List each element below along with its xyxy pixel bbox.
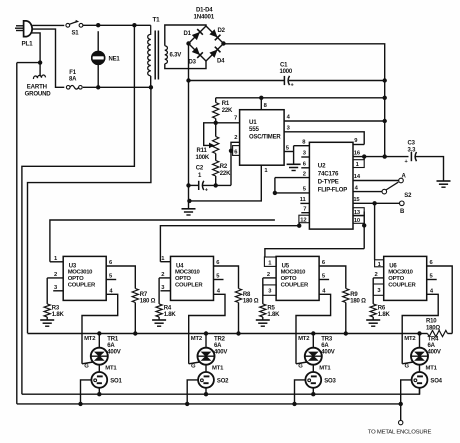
svg-text:6A: 6A — [428, 343, 436, 349]
node NE1 top — [96, 23, 100, 27]
svg-text:6A: 6A — [321, 343, 329, 349]
socket SO3 — [305, 372, 336, 388]
resistor R4 1.8K — [156, 304, 176, 320]
diode D1 — [184, 29, 203, 40]
svg-text:6A: 6A — [214, 343, 222, 349]
wire plug second conductor — [32, 29, 64, 87]
bridge rectifier frame — [189, 26, 224, 61]
opto-coupler U3 MOC3010 box — [63, 256, 106, 300]
svg-text:T1: T1 — [153, 17, 161, 24]
op-amp U1 555 box — [240, 110, 285, 166]
svg-text:2: 2 — [161, 272, 164, 278]
svg-text:180 Ω: 180 Ω — [140, 299, 156, 305]
wire C1 line left — [189, 80, 285, 82]
svg-text:15: 15 — [353, 197, 360, 203]
U2 pin 8 wire to ground — [294, 140, 310, 165]
svg-text:R11: R11 — [197, 148, 208, 154]
U4 pin 5 stub — [214, 273, 224, 279]
wire U2 pin15 to U6 pin1 — [374, 203, 376, 259]
svg-text:C1: C1 — [280, 63, 288, 69]
wire SO2 bottom — [204, 388, 208, 397]
svg-text:COUPLER: COUPLER — [175, 283, 203, 289]
wire 555 pin 7 — [216, 115, 240, 123]
U2 pin 5 wire — [275, 187, 310, 193]
wire C1 line right — [289, 80, 385, 82]
svg-text:R6: R6 — [378, 306, 386, 312]
boxed pin 12 of U2 — [297, 215, 309, 228]
wire V+ distribution — [216, 97, 385, 99]
svg-text:D-TYPE: D-TYPE — [318, 179, 339, 185]
svg-text:+: + — [205, 188, 208, 194]
ground right of C3 — [437, 181, 451, 187]
triac TR1 — [82, 331, 121, 372]
U4 pin 6 wire — [214, 260, 239, 289]
resistor R10 180ohm — [420, 319, 453, 337]
svg-text:MOC3010: MOC3010 — [388, 270, 413, 276]
resistor R9 180ohm — [343, 289, 366, 334]
svg-text:TR1: TR1 — [107, 337, 119, 343]
svg-text:U3: U3 — [69, 263, 77, 269]
earth bus — [17, 403, 401, 405]
U2 pin 4 wire — [353, 185, 382, 191]
wire C3 to ground — [416, 157, 444, 181]
wire U2 pins13-10 to U5 pin1 — [265, 249, 364, 257]
svg-text:MT2: MT2 — [191, 336, 203, 342]
555 pin 1 stub — [189, 165, 268, 201]
svg-text:400V: 400V — [107, 350, 120, 356]
capacitor C1 — [280, 63, 294, 89]
svg-text:10: 10 — [354, 218, 360, 224]
wire SO4 earth pin — [399, 380, 412, 406]
U4 pin 4 wire to gate — [189, 288, 225, 364]
svg-text:6A: 6A — [107, 343, 115, 349]
ground below R5 — [256, 320, 270, 326]
resistor R2 — [213, 161, 231, 186]
capacitor C3 — [405, 140, 417, 165]
ground below R6 — [366, 320, 380, 326]
svg-text:7: 7 — [234, 115, 237, 121]
diode D2 — [209, 28, 225, 41]
svg-text:TO METAL ENCLOSURE: TO METAL ENCLOSURE — [368, 430, 432, 436]
svg-text:2: 2 — [267, 272, 270, 278]
svg-text:2: 2 — [375, 272, 378, 278]
opto-coupler U6 MOC3010 box — [384, 256, 427, 300]
metal enclosure terminal — [368, 404, 432, 436]
svg-text:1.8K: 1.8K — [378, 312, 391, 318]
wire S1 to T1 primary top — [83, 24, 151, 26]
wire T1 secondary top to bridge — [165, 25, 206, 46]
svg-text:G: G — [84, 363, 89, 369]
wire SO3 earth pin — [292, 380, 305, 406]
555 pin 8 stub — [261, 98, 267, 110]
node bridge minus — [186, 41, 190, 45]
svg-text:+: + — [405, 159, 408, 165]
hot feed wire — [22, 25, 134, 394]
svg-text:TR3: TR3 — [321, 337, 333, 343]
U3 pin 1 wire — [50, 256, 63, 262]
node R2 bottom — [214, 183, 218, 187]
wire SO4 bottom — [419, 388, 421, 394]
opto-coupler U5 MOC3010 box — [276, 256, 319, 300]
svg-text:R7: R7 — [140, 292, 148, 298]
svg-text:D4: D4 — [217, 59, 225, 65]
socket SO4 — [412, 372, 443, 388]
resistor R3 1.8K — [44, 304, 64, 320]
svg-text:D2: D2 — [218, 28, 226, 34]
svg-text:180Ω: 180Ω — [426, 325, 440, 331]
boxed pin 10 of U2 — [353, 216, 364, 224]
svg-text:R5: R5 — [267, 306, 275, 312]
node earth junction — [38, 60, 42, 64]
node C1 left — [186, 78, 190, 82]
triac TR4 — [402, 331, 441, 372]
svg-text:16: 16 — [354, 150, 361, 156]
wire earth to left rail — [17, 62, 40, 64]
U3 pin 3 stub — [53, 285, 63, 291]
svg-text:R8: R8 — [243, 292, 251, 298]
U5 pin 6 wire — [319, 260, 346, 289]
U6 pin 2 wire — [373, 272, 384, 304]
svg-text:R4: R4 — [164, 306, 172, 312]
node NE1 bottom — [96, 85, 100, 89]
svg-text:SO4: SO4 — [430, 378, 442, 384]
flip-flop U2 74C176 box — [309, 142, 353, 229]
wire U2 pins2-5 to U3 pin1 — [50, 220, 275, 262]
node neutral top — [149, 85, 153, 89]
resistor R7 180ohm — [132, 289, 155, 334]
svg-text:2: 2 — [54, 272, 57, 278]
fuse F1 8A — [66, 70, 82, 89]
svg-text:COUPLER: COUPLER — [68, 283, 96, 289]
555 pin 4 wire — [284, 115, 385, 121]
ground at minus rail — [182, 209, 196, 215]
resistor R5 1.8K — [260, 304, 280, 320]
node C2 left — [186, 183, 190, 187]
svg-text:12: 12 — [300, 218, 306, 224]
svg-text:1.8K: 1.8K — [267, 312, 280, 318]
node hot tap — [132, 23, 136, 27]
switch S1 — [66, 20, 83, 36]
svg-text:U4: U4 — [176, 263, 184, 269]
U3 pin 5 stub — [106, 273, 116, 279]
wire pins13-10 down — [362, 212, 366, 249]
U5 pin 4 wire to gate — [296, 288, 331, 364]
svg-text:R9: R9 — [350, 292, 358, 298]
svg-text:SO1: SO1 — [110, 378, 122, 384]
svg-text:MT2: MT2 — [84, 336, 96, 342]
svg-text:GROUND: GROUND — [25, 90, 52, 97]
node R9 bus — [344, 331, 348, 335]
capacitor C2 — [196, 166, 208, 194]
boxed pin 3 of U6 — [373, 284, 384, 295]
U2 pin 11 stub — [300, 197, 310, 203]
svg-text:MT2: MT2 — [404, 336, 416, 342]
svg-text:G: G — [298, 363, 303, 369]
U4 pin 2 wire — [159, 272, 170, 304]
wire U2 pin12 to U4 pin1 — [160, 226, 299, 262]
wire plug to S1 — [33, 24, 65, 26]
svg-text:2: 2 — [234, 135, 237, 141]
svg-text:100K: 100K — [196, 155, 210, 161]
svg-text:555: 555 — [249, 126, 259, 133]
U3 pin 4 wire to gate — [82, 288, 118, 364]
node pin16 rail — [383, 154, 387, 158]
svg-text:C3: C3 — [408, 140, 416, 146]
U2 pin 6 stub — [301, 162, 309, 168]
resistor R6 1.8K — [370, 304, 390, 320]
U2 pin 7 stub — [301, 207, 309, 213]
svg-text:F1: F1 — [69, 70, 76, 76]
U5 pin 2 wire — [263, 272, 276, 304]
svg-text:MOC3010: MOC3010 — [175, 270, 200, 276]
U2 pin 2 wire — [275, 171, 310, 193]
svg-text:SO3: SO3 — [324, 378, 336, 384]
svg-text:OPTO: OPTO — [68, 276, 84, 282]
svg-text:3.3: 3.3 — [408, 147, 417, 153]
node R7 bus — [133, 331, 137, 335]
node R1 bottom pin7 — [214, 121, 218, 125]
svg-text:C2: C2 — [196, 166, 204, 172]
svg-text:OPTO: OPTO — [175, 276, 191, 282]
svg-text:13: 13 — [354, 210, 361, 216]
svg-text:MOC3010: MOC3010 — [68, 270, 93, 276]
wire SO2 earth pin — [185, 380, 198, 406]
ground near U2 pin 6 — [287, 164, 301, 170]
boxed pin 1 of U6 — [375, 260, 384, 268]
svg-text:COUPLER: COUPLER — [388, 283, 416, 289]
wire pin2/6 riser — [231, 135, 240, 186]
svg-text:400V: 400V — [214, 350, 227, 356]
U6 pin 4 wire to gate — [402, 288, 438, 364]
svg-text:S1: S1 — [72, 30, 80, 36]
U5 pin 5 stub — [319, 273, 329, 279]
svg-text:180 Ω: 180 Ω — [243, 299, 259, 305]
node R8 bus — [236, 331, 240, 335]
wire bridge minus rail down — [188, 44, 190, 209]
U4 pin 1 wire — [160, 256, 170, 262]
boxed pin 1 of U2 — [353, 157, 364, 168]
svg-text:MT1: MT1 — [212, 366, 224, 372]
U4 pin 3 stub — [161, 285, 171, 291]
svg-text:OPTO: OPTO — [388, 276, 404, 282]
node bridge plus — [221, 41, 225, 45]
transformer T1 — [148, 17, 182, 88]
U2 pin 16 wire — [353, 150, 409, 156]
svg-text:SO2: SO2 — [217, 378, 229, 384]
svg-text:COUPLER: COUPLER — [281, 283, 309, 289]
triac TR3 — [296, 331, 335, 372]
neutral MT2 bus — [28, 333, 419, 335]
svg-text:MT1: MT1 — [105, 366, 117, 372]
svg-text:R2: R2 — [220, 164, 228, 170]
earth rail — [16, 63, 18, 404]
U6 pin 6 wire — [427, 260, 453, 334]
svg-text:FLIP-FLOP: FLIP-FLOP — [318, 187, 347, 193]
earth ground symbol — [25, 63, 52, 98]
diode D4 — [209, 47, 225, 65]
svg-text:MT2: MT2 — [298, 336, 310, 342]
svg-text:14: 14 — [354, 174, 361, 180]
U6 pin 5 stub — [427, 273, 437, 279]
svg-text:74C176: 74C176 — [318, 170, 339, 177]
svg-text:2: 2 — [303, 171, 306, 177]
svg-text:OPTO: OPTO — [281, 276, 297, 282]
555 pin 5 wire — [284, 145, 294, 151]
svg-text:R10: R10 — [426, 319, 437, 325]
node pin16 pin1 — [362, 154, 366, 158]
svg-text:S2: S2 — [404, 193, 412, 199]
neon lamp NE1 — [92, 31, 121, 87]
node pin15 branch — [372, 201, 376, 205]
boxed pin 3 of U5 — [263, 285, 276, 295]
triac TR2 — [189, 331, 228, 372]
node 555 pin8 tap — [259, 96, 263, 100]
ground below R3 — [40, 320, 54, 326]
node pin1 gnd join — [187, 199, 191, 203]
resistor R1 — [213, 98, 233, 123]
svg-text:U6: U6 — [389, 263, 397, 269]
node V+ rail — [383, 96, 387, 100]
svg-text:1N4001: 1N4001 — [194, 13, 215, 20]
wire bridge plus to V+ rail — [224, 44, 385, 157]
diode D3 — [189, 47, 203, 66]
svg-text:22K: 22K — [222, 108, 233, 114]
svg-text:TR4: TR4 — [428, 337, 440, 343]
svg-text:NE1: NE1 — [109, 56, 121, 62]
svg-text:11: 11 — [300, 197, 307, 203]
resistor R8 180ohm — [235, 289, 258, 334]
svg-text:22K: 22K — [220, 171, 231, 177]
socket SO1 — [91, 372, 122, 388]
svg-text:TR2: TR2 — [214, 337, 226, 343]
boxed pin 6 of U1 — [229, 146, 240, 156]
ground below R4 — [152, 320, 166, 326]
wire SO1 bottom — [97, 388, 101, 397]
svg-text:R3: R3 — [52, 306, 60, 312]
wire fuse to T1 primary bottom — [83, 86, 151, 88]
svg-text:D1: D1 — [184, 31, 192, 37]
boxed pin 1 of U5 — [264, 257, 276, 266]
node pins 2-5 — [273, 191, 277, 195]
svg-text:+: + — [291, 83, 294, 89]
hot socket bus — [22, 387, 420, 394]
wire SO3 bottom — [311, 388, 315, 397]
svg-text:400V: 400V — [321, 350, 334, 356]
svg-text:R1: R1 — [222, 101, 230, 107]
potentiometer R11 — [196, 123, 219, 161]
svg-text:D3: D3 — [189, 60, 197, 66]
boxed pin 13 of U2 — [353, 208, 364, 216]
wire C2 line — [189, 184, 232, 186]
555 pin 3 wire — [284, 126, 364, 145]
label D1-D4 1N4001 — [194, 8, 215, 21]
svg-text:7: 7 — [303, 207, 306, 213]
earth conductor from plug — [31, 33, 41, 63]
U2 pin 3 stub — [301, 151, 309, 157]
svg-text:OSC/TIMER: OSC/TIMER — [249, 135, 281, 141]
svg-text:MOC3010: MOC3010 — [281, 270, 306, 276]
svg-text:MT1: MT1 — [426, 366, 438, 372]
opto-coupler U4 MOC3010 box — [171, 256, 214, 300]
svg-text:8A: 8A — [69, 77, 77, 83]
node pin4 rail — [383, 119, 387, 123]
U2 pin 15 wire — [353, 197, 400, 203]
svg-text:MT1: MT1 — [319, 366, 331, 372]
svg-text:G: G — [191, 363, 196, 369]
U3 pin 6 wire — [106, 260, 135, 289]
U3 pin 2 wire — [47, 272, 63, 304]
svg-text:1.8K: 1.8K — [52, 312, 65, 318]
svg-text:1.8K: 1.8K — [164, 312, 177, 318]
node C1 right — [383, 78, 387, 82]
U2 pin 14 wire — [353, 174, 399, 180]
svg-text:PL1: PL1 — [22, 41, 34, 48]
U2 pin 9 wire — [353, 138, 364, 145]
svg-text:U2: U2 — [318, 162, 326, 169]
svg-text:400V: 400V — [428, 350, 441, 356]
svg-text:U5: U5 — [282, 263, 290, 269]
svg-text:6.3V: 6.3V — [170, 53, 182, 59]
wire SO1 earth pin — [78, 380, 91, 406]
svg-text:1000: 1000 — [280, 69, 293, 75]
wire T1 secondary bottom to bridge — [165, 61, 206, 69]
svg-text:180 Ω: 180 Ω — [350, 299, 366, 305]
neutral feed wire — [28, 87, 151, 333]
AC plug PL1 — [15, 21, 33, 48]
socket SO2 — [198, 372, 229, 388]
svg-text:G: G — [405, 363, 410, 369]
switch S2 — [382, 174, 412, 215]
